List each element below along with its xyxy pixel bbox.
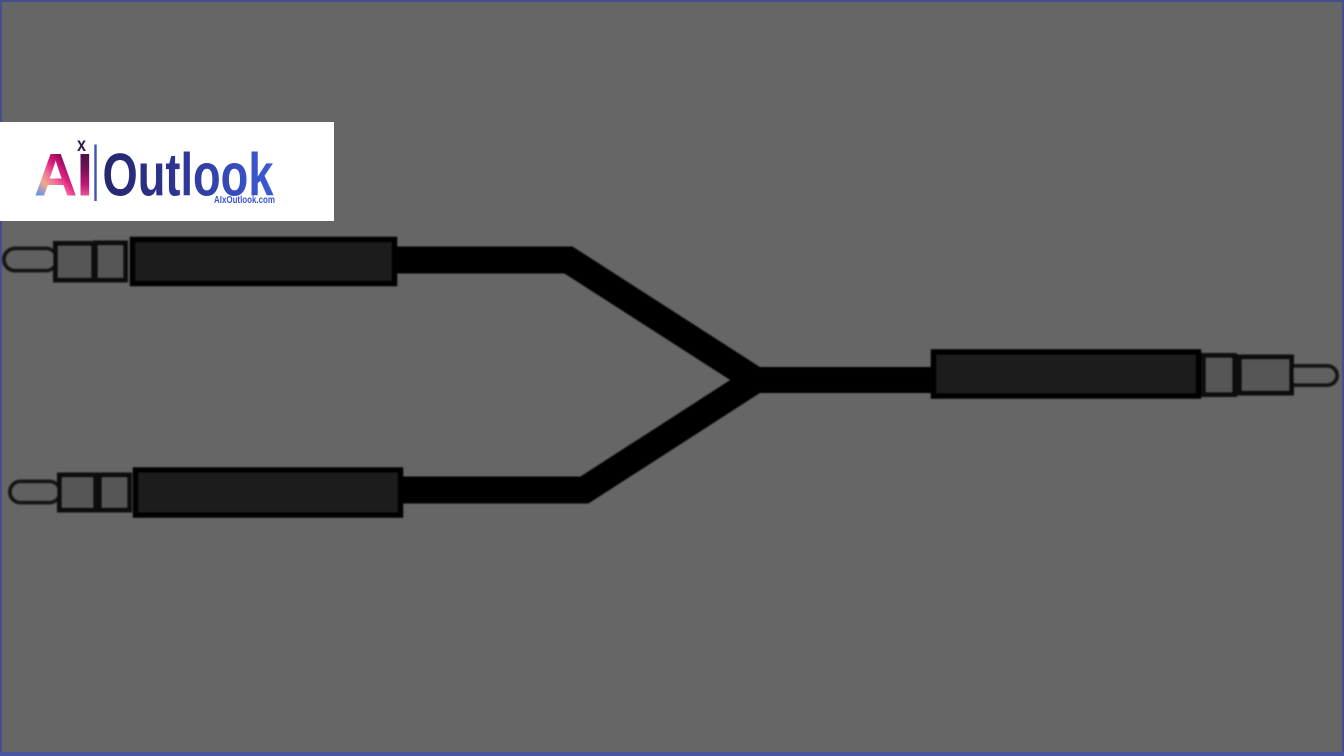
svg-text:A: A — [34, 141, 77, 208]
logo separator bar — [94, 145, 96, 202]
connector P2 body — [136, 470, 401, 515]
connector P3 tip — [1286, 366, 1337, 385]
connector P3 body — [934, 352, 1199, 396]
logo white box — [0, 122, 334, 221]
connector P2 collar 1 — [60, 475, 96, 510]
connector P1 collar 1 — [56, 244, 94, 281]
connector P2 collar 2 — [100, 475, 130, 510]
wire right horizontal — [741, 367, 934, 393]
connector P1 body — [133, 240, 395, 284]
connector P3 collar 1 — [1204, 356, 1235, 395]
svg-text:x: x — [77, 135, 86, 156]
connector P1 tip — [4, 249, 57, 271]
wire top-left horizontal+diagonal — [396, 260, 757, 381]
connector P2 tip — [10, 482, 60, 503]
connector P1 collar 2 — [96, 243, 126, 280]
wire bottom-left horizontal+diagonal — [400, 379, 757, 490]
svg-text:AIxOutlook.com: AIxOutlook.com — [214, 194, 275, 206]
connector P3 collar 2 — [1240, 357, 1292, 393]
blue bottom edge strip — [0, 752, 1344, 756]
